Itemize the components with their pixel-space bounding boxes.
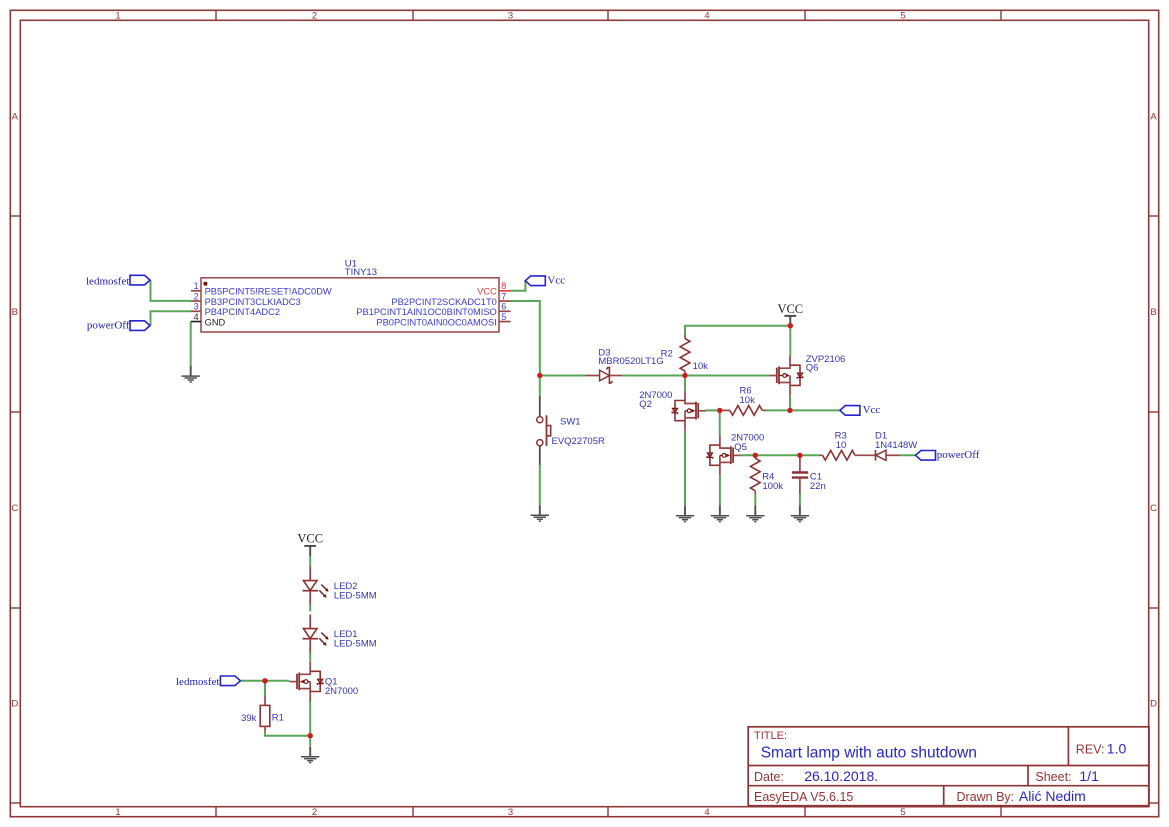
net flag Vcc (top)	[525, 274, 565, 286]
svg-text:GND: GND	[205, 317, 226, 327]
ground under Q5	[711, 506, 729, 522]
svg-text:3: 3	[508, 10, 513, 21]
svg-text:2: 2	[312, 10, 317, 21]
junction node S1	[308, 733, 313, 738]
svg-text:ledmosfet: ledmosfet	[176, 676, 219, 688]
svg-text:Vcc: Vcc	[863, 404, 881, 416]
wire powerOff to U1 pin 3	[151, 311, 192, 325]
junction node SW	[537, 373, 542, 378]
svg-text:VCC: VCC	[777, 302, 803, 316]
wire Q5 gate row to R3	[741, 454, 820, 456]
power VCC (led chain)	[297, 532, 323, 556]
transistor Q2 2N7000	[639, 390, 706, 431]
wire ledmosfet to U1 pin 2	[151, 280, 192, 301]
svg-text:4: 4	[704, 10, 709, 21]
net flag ledmosfet (bottom)	[176, 676, 240, 688]
resistor R3 10	[819, 430, 875, 460]
svg-text:10k: 10k	[740, 395, 756, 406]
svg-text:D: D	[11, 699, 18, 710]
wire node R2 down to Q2 drain	[684, 376, 686, 392]
wire Q5 source to ground	[719, 475, 721, 505]
svg-text:3: 3	[194, 302, 199, 312]
diode D3 MBR0520LT1G	[585, 348, 664, 384]
wire node VccOut to Vcc flag	[790, 409, 840, 411]
svg-text:EVQ22705R: EVQ22705R	[552, 436, 605, 447]
junction node VccOut	[787, 408, 792, 413]
resistor R6 10k	[720, 385, 767, 415]
svg-text:22n: 22n	[810, 481, 826, 492]
wire Q2 gate-lead to node G2	[706, 409, 720, 411]
svg-text:1.0: 1.0	[1107, 741, 1127, 757]
svg-text:VCC: VCC	[477, 287, 497, 297]
svg-text:C: C	[11, 503, 18, 514]
power VCC (top)	[777, 302, 803, 326]
ground under Q1	[301, 747, 319, 763]
wire VCC2 to LED2 anode	[309, 555, 311, 567]
svg-text:C: C	[1150, 503, 1157, 514]
transistor Q1 2N7000	[289, 662, 358, 702]
svg-text:4: 4	[194, 312, 199, 322]
svg-text:3: 3	[508, 807, 513, 818]
title block	[748, 727, 1149, 806]
U1 pin 1	[191, 281, 332, 297]
svg-text:R2: R2	[661, 348, 673, 359]
net flag ledmosfet (left)	[86, 275, 150, 287]
resistor R1 39k	[241, 696, 284, 731]
wire U1 pin 4 to ground	[190, 322, 192, 367]
ground under R4	[746, 506, 764, 522]
junction node LM	[262, 678, 267, 683]
wire R1 bottom to node S1	[265, 731, 310, 736]
wire ledmosfet flag to Q1 gate	[240, 680, 289, 682]
wire node G2 down to Q5 drain	[719, 410, 721, 435]
svg-text:ledmosfet: ledmosfet	[86, 275, 129, 287]
ground under C1	[791, 506, 809, 522]
svg-text:EasyEDA V5.6.15: EasyEDA V5.6.15	[754, 790, 853, 804]
svg-text:1N4148W: 1N4148W	[875, 440, 917, 451]
wire U1 pin 8 to Vcc flag	[511, 281, 526, 291]
switch SW1 EVQ22705R	[537, 396, 605, 465]
svg-text:A: A	[12, 111, 19, 122]
ground under SW1	[531, 505, 549, 521]
svg-text:LED-5MM: LED-5MM	[334, 639, 377, 650]
svg-text:PB1PCINT1AIN1OC0BINT0MISO: PB1PCINT1AIN1OC0BINT0MISO	[356, 307, 497, 317]
svg-text:Alić Nedim: Alić Nedim	[1019, 788, 1086, 804]
svg-text:Q6: Q6	[806, 363, 819, 374]
svg-text:8: 8	[501, 281, 506, 291]
wire Q6 source to node VccOut	[789, 396, 791, 411]
wire R4 bottom to ground	[754, 494, 756, 506]
svg-text:TINY13: TINY13	[345, 267, 377, 278]
svg-text:5: 5	[900, 807, 905, 818]
svg-text:5: 5	[501, 312, 506, 322]
svg-text:39k: 39k	[241, 713, 257, 724]
U1 pin 2	[191, 291, 301, 307]
LED1 LED-5MM	[303, 615, 377, 653]
svg-text:1: 1	[115, 807, 120, 818]
svg-text:1: 1	[194, 281, 199, 291]
svg-text:SW1: SW1	[560, 417, 581, 428]
transistor Q5 2N7000	[707, 433, 764, 476]
wire Q2 source to ground	[684, 431, 686, 506]
svg-text:PB0PCINT0AIN0OC0AMOSI: PB0PCINT0AIN0OC0AMOSI	[376, 317, 496, 327]
svg-text:PB3PCINT3CLKIADC3: PB3PCINT3CLKIADC3	[205, 297, 301, 307]
wire R6 right to node VccOut	[766, 409, 790, 411]
svg-text:Smart lamp with auto shutdown: Smart lamp with auto shutdown	[761, 744, 977, 761]
U1 TINY13	[201, 259, 499, 332]
svg-text:PB5PCINT5!RESET!ADC0DW: PB5PCINT5!RESET!ADC0DW	[205, 287, 332, 297]
net flag Vcc (right)	[840, 404, 881, 416]
ground under Q2	[676, 506, 694, 522]
svg-text:4: 4	[704, 807, 709, 818]
svg-text:Sheet:: Sheet:	[1035, 770, 1071, 784]
junction VCC rail	[788, 323, 793, 328]
svg-text:LED-5MM: LED-5MM	[334, 591, 377, 602]
wire C1 bottom to ground	[799, 494, 801, 506]
U1 pin 4 GND	[191, 312, 226, 328]
junction node C1 top	[797, 453, 802, 458]
wire R2 top to VCC rail	[685, 326, 790, 336]
U1 pin 7	[391, 291, 510, 307]
wire node SW down to SW1	[539, 376, 541, 397]
svg-text:PB2PCINT2SCKADC1T0: PB2PCINT2SCKADC1T0	[391, 297, 496, 307]
diode D1 1N4148W	[875, 430, 917, 460]
wire node R2 to Q6 gate	[685, 375, 769, 377]
svg-text:A: A	[1150, 111, 1157, 122]
svg-text:7: 7	[501, 291, 506, 301]
wire U1 pin 7 down to node SW	[511, 301, 540, 375]
svg-text:2N7000: 2N7000	[325, 686, 358, 697]
wire VCC rail down to Q6 drain	[789, 326, 791, 356]
svg-text:Vcc: Vcc	[547, 274, 565, 286]
LED2 LED-5MM	[303, 567, 377, 605]
svg-text:B: B	[12, 307, 18, 318]
svg-text:powerOff: powerOff	[937, 449, 980, 461]
U1 pin 5	[376, 312, 510, 328]
wire D3 cathode to node R2	[622, 375, 685, 377]
svg-text:REV:: REV:	[1076, 742, 1105, 756]
svg-text:D: D	[1150, 699, 1157, 710]
svg-text:R1: R1	[272, 712, 284, 723]
net flag powerOff (left)	[87, 320, 150, 332]
resistor R2 10k	[661, 335, 709, 376]
svg-text:MBR0520LT1G: MBR0520LT1G	[598, 356, 663, 367]
junction node R2	[682, 373, 687, 378]
transistor Q6 ZVP2106	[769, 354, 845, 396]
wire Q1 source to ground	[309, 701, 311, 746]
wire node SW to D3 anode	[540, 375, 586, 377]
wire LED2 cathode to LED1 anode	[309, 605, 311, 612]
svg-text:26.10.2018.: 26.10.2018.	[804, 768, 878, 784]
svg-text:10: 10	[836, 440, 847, 451]
svg-text:PB4PCINT4ADC2: PB4PCINT4ADC2	[205, 307, 280, 317]
wire SW1 bottom to ground	[539, 465, 541, 505]
svg-text:10k: 10k	[693, 361, 709, 372]
wire D1 anode to powerOff flag	[899, 454, 915, 456]
U1 pin 8 VCC	[477, 281, 510, 297]
ground under U1	[182, 366, 200, 382]
resistor R4 100k	[750, 455, 783, 494]
wire node LM down to R1 top	[264, 681, 266, 697]
svg-text:TITLE:: TITLE:	[754, 730, 787, 742]
wire LED1 cathode to Q1 drain	[309, 652, 311, 661]
svg-text:B: B	[1150, 307, 1156, 318]
svg-text:100k: 100k	[762, 481, 783, 492]
svg-text:2: 2	[312, 807, 317, 818]
junction node G2	[717, 408, 722, 413]
svg-text:2: 2	[194, 291, 199, 301]
svg-text:Q5: Q5	[734, 442, 747, 453]
capacitor C1 22n	[792, 455, 826, 494]
U1 pin 3	[191, 302, 280, 318]
svg-text:Drawn By:: Drawn By:	[957, 790, 1015, 804]
net flag powerOff (right)	[916, 449, 980, 461]
svg-text:6: 6	[501, 302, 506, 312]
U1 pin 6	[356, 302, 510, 318]
svg-text:1/1: 1/1	[1079, 768, 1099, 784]
svg-text:5: 5	[900, 10, 905, 21]
svg-text:Q2: Q2	[639, 399, 652, 410]
svg-text:Date:: Date:	[754, 770, 784, 784]
junction node R4 top	[753, 453, 758, 458]
svg-text:powerOff: powerOff	[87, 320, 130, 332]
svg-text:1: 1	[115, 10, 120, 21]
svg-text:VCC: VCC	[297, 532, 323, 546]
